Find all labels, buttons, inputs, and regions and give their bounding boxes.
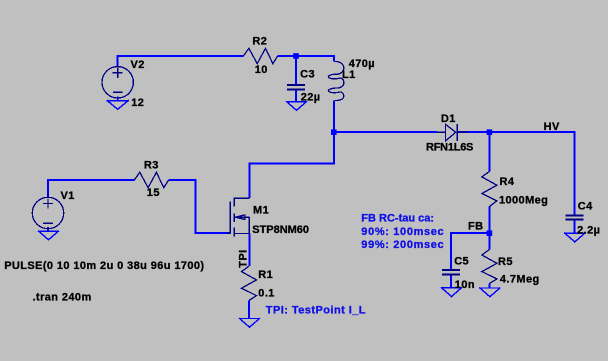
svg-text:99%: 200msec: 99%: 200msec	[361, 239, 444, 251]
svg-text:C5: C5	[454, 256, 469, 268]
svg-text:90%: 100msec: 90%: 100msec	[361, 226, 444, 238]
svg-text:10: 10	[255, 64, 268, 76]
svg-text:M1: M1	[253, 205, 269, 217]
svg-text:D1: D1	[441, 113, 456, 125]
svg-text:L1: L1	[342, 69, 356, 81]
svg-text:FB RC-tau ca:: FB RC-tau ca:	[361, 213, 434, 225]
svg-text:TPI: TestPoint I_L: TPI: TestPoint I_L	[266, 304, 366, 316]
svg-text:RFN1L6S: RFN1L6S	[426, 142, 473, 154]
svg-text:10n: 10n	[455, 279, 475, 291]
svg-text:.tran 240m: .tran 240m	[33, 291, 92, 303]
svg-text:HV: HV	[544, 121, 560, 133]
svg-text:V1: V1	[61, 190, 75, 202]
svg-text:R4: R4	[500, 176, 515, 188]
svg-text:12: 12	[131, 97, 144, 109]
svg-text:FB: FB	[468, 221, 483, 233]
svg-text:STP8NM60: STP8NM60	[252, 224, 309, 236]
svg-text:15: 15	[147, 187, 160, 199]
svg-text:22µ: 22µ	[301, 92, 321, 104]
svg-text:4.7Meg: 4.7Meg	[500, 273, 540, 285]
svg-text:TPI: TPI	[237, 249, 249, 267]
svg-text:1000Meg: 1000Meg	[499, 194, 548, 206]
svg-text:R2: R2	[252, 36, 267, 48]
svg-text:C3: C3	[300, 69, 315, 81]
svg-text:R1: R1	[258, 269, 273, 281]
svg-text:0.1: 0.1	[258, 288, 275, 300]
svg-text:C4: C4	[578, 201, 593, 213]
svg-text:2.2µ: 2.2µ	[577, 225, 600, 237]
svg-text:R3: R3	[144, 160, 159, 172]
svg-text:V2: V2	[131, 59, 145, 71]
svg-text:R5: R5	[498, 256, 513, 268]
svg-text:PULSE(0 10 10m 2u 0 38u 96u 17: PULSE(0 10 10m 2u 0 38u 96u 1700)	[4, 260, 204, 272]
